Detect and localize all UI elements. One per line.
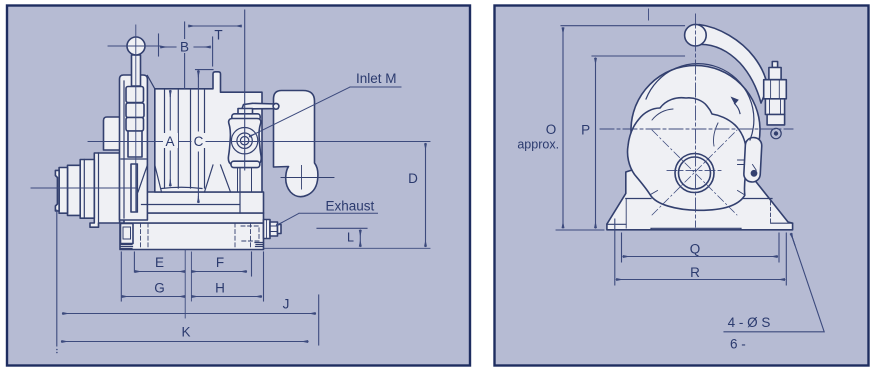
interior details — [607, 64, 793, 230]
main horizontal centerline — [88, 141, 430, 143]
left plate — [120, 75, 148, 220]
dimension lines — [57, 10, 426, 346]
dim L arrows — [359, 230, 361, 247]
front cover lobed — [628, 98, 748, 211]
valve stem — [238, 109, 253, 116]
valve hex lines — [770, 80, 781, 115]
dim R — [616, 279, 785, 281]
svg-text:T: T — [214, 28, 222, 43]
valve center boss — [231, 128, 257, 154]
dim Q — [623, 256, 778, 258]
valve pipe below — [238, 168, 252, 192]
base corner verticals — [626, 165, 756, 229]
svg-text:K: K — [181, 325, 190, 340]
svg-text:O: O — [546, 122, 557, 137]
svg-text:F: F — [216, 255, 224, 270]
labels — [517, 122, 770, 352]
svg-text:Exhaust: Exhaust — [326, 199, 375, 214]
exhaust fitting ribs — [267, 220, 278, 239]
shaft inner lines — [84, 153, 98, 223]
valve small circle — [771, 128, 781, 138]
dim F — [192, 271, 247, 273]
housing circle — [631, 66, 760, 195]
valve handle — [241, 103, 279, 112]
base bolt holes dashed — [141, 223, 251, 250]
shaft step 3 — [68, 165, 81, 215]
svg-text:4 - Ø S: 4 - Ø S — [728, 315, 771, 330]
ext line x212.6 — [212, 37, 214, 66]
centerlines — [31, 25, 430, 248]
C top tick — [196, 69, 214, 71]
dim D — [425, 144, 427, 247]
P ref line — [592, 55, 685, 57]
inlet leader — [250, 87, 402, 137]
slot bridge — [738, 160, 745, 165]
top tick — [648, 9, 650, 20]
base end box — [121, 224, 134, 244]
shaft step 1 — [90, 153, 120, 227]
valve top flange — [232, 114, 260, 120]
step under drum — [142, 169, 241, 214]
svg-text:C: C — [194, 134, 204, 149]
S leader — [724, 234, 824, 332]
dim E — [135, 271, 185, 273]
lower body block — [124, 192, 264, 213]
right panel background — [495, 6, 869, 366]
svg-text:R: R — [690, 265, 700, 280]
lever ball — [685, 24, 707, 46]
lever lower block — [128, 131, 142, 157]
dim T — [189, 25, 242, 27]
shaft step 4 — [59, 168, 67, 214]
right body housing — [274, 91, 318, 197]
svg-text:approx.: approx. — [517, 137, 559, 151]
inner rim arc — [646, 64, 754, 140]
interior detail lines — [84, 76, 334, 250]
dim C — [197, 71, 199, 203]
ratchet block 1 — [126, 87, 144, 103]
L upper tick — [317, 227, 367, 229]
bore inner — [679, 157, 711, 189]
shaft step 2 — [80, 160, 94, 219]
boss centerline ticks — [281, 166, 334, 190]
dim J — [63, 313, 316, 315]
upper-left bracket — [104, 117, 121, 150]
drum barrel lines — [165, 89, 205, 188]
ext line x245 — [244, 10, 246, 170]
drum flange left — [138, 165, 162, 192]
slot dot — [751, 171, 757, 177]
base bottom extension to D — [264, 247, 431, 249]
ratchet block 2 — [126, 103, 144, 118]
valve bottom flange — [231, 161, 260, 167]
pedestal base — [607, 170, 793, 230]
base end box inner — [123, 227, 131, 239]
plinth rail — [124, 213, 264, 223]
exhaust leader — [277, 213, 378, 225]
plate inner — [121, 81, 146, 218]
svg-text:H: H — [215, 281, 225, 296]
base pad lines — [607, 223, 793, 230]
dim O — [562, 28, 564, 228]
drum vertical centerline lower — [184, 250, 186, 318]
svg-text:P: P — [581, 123, 590, 138]
side slot — [743, 137, 762, 182]
ball crosshairs — [108, 25, 160, 212]
svg-text:Q: Q — [690, 242, 701, 257]
dim H — [192, 296, 262, 298]
svg-text:G: G — [154, 281, 165, 296]
svg-text:E: E — [155, 255, 164, 270]
svg-text:6 -: 6 - — [730, 337, 746, 352]
dim G — [122, 296, 185, 298]
barrel bottom — [162, 187, 203, 188]
centerlines — [600, 9, 793, 227]
ext line x185 — [184, 22, 186, 89]
drum flange right — [205, 165, 231, 192]
left foot pad — [121, 243, 264, 249]
O ref line — [561, 25, 685, 27]
foot holes dashed — [770, 202, 772, 223]
left panel background — [7, 6, 470, 366]
diagonal centerlines — [652, 130, 737, 215]
ext lines bottom — [120, 252, 122, 301]
dim A — [169, 91, 171, 187]
shaft nose — [55, 170, 59, 211]
svg-text:J: J — [283, 297, 290, 312]
lever band — [697, 25, 768, 104]
valve body — [228, 119, 261, 165]
ext line x158.5 — [158, 34, 160, 56]
vertical centerline — [695, 14, 697, 227]
svg-text:L: L — [347, 231, 354, 245]
svg-text:D: D — [408, 171, 418, 186]
dimensions — [556, 26, 824, 332]
lever lower strip — [131, 164, 137, 212]
ratchet block 3 — [126, 118, 144, 132]
bore outer — [675, 154, 714, 193]
valve stack — [772, 62, 777, 68]
base top line — [626, 198, 772, 200]
dim K — [62, 341, 309, 343]
dim B — [161, 46, 211, 48]
cover lower diagonals — [651, 191, 745, 195]
bore crosshair — [667, 169, 724, 171]
svg-text:A: A — [165, 134, 174, 149]
cover arcs — [652, 109, 673, 120]
rotation arrow — [735, 104, 741, 114]
plate chamfer — [147, 76, 154, 89]
svg-text:Inlet M: Inlet M — [356, 71, 397, 86]
exhaust fitting — [264, 220, 271, 239]
base bottom ext left — [556, 229, 604, 231]
lever ball knob — [127, 37, 145, 55]
horizontal centerline — [600, 128, 793, 130]
drum and mid body — [155, 72, 262, 192]
ext lines QR — [615, 219, 787, 285]
svg-text:B: B — [180, 40, 189, 55]
shaft centerline — [31, 187, 136, 189]
lever rod — [132, 55, 141, 86]
base plate — [120, 223, 264, 250]
dim P — [595, 58, 597, 228]
